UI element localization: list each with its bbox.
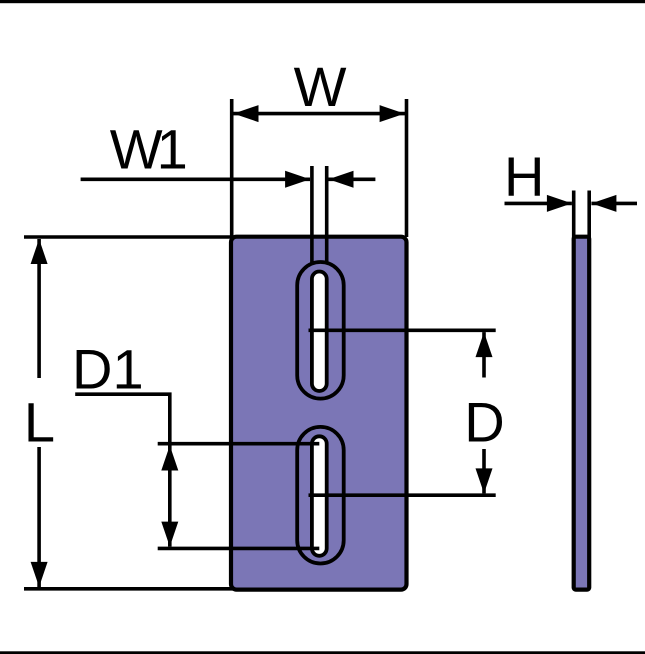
svg-text:W1: W1	[110, 118, 186, 181]
svg-text:D: D	[464, 391, 504, 454]
svg-text:H: H	[504, 145, 544, 208]
svg-text:L: L	[24, 390, 55, 453]
svg-text:D1: D1	[72, 338, 144, 401]
svg-text:W: W	[294, 55, 347, 118]
